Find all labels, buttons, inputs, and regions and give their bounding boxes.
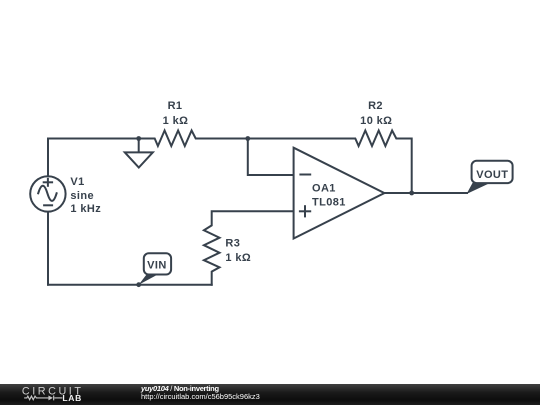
svg-text:VIN: VIN [147, 260, 167, 272]
svg-text:1 kΩ: 1 kΩ [225, 252, 251, 264]
svg-text:VOUT: VOUT [476, 169, 508, 181]
svg-text:R1: R1 [168, 100, 183, 112]
svg-text:OA1: OA1 [312, 182, 336, 194]
svg-text:TL081: TL081 [312, 197, 346, 209]
svg-text:LAB: LAB [62, 393, 81, 403]
svg-text:R3: R3 [225, 238, 240, 250]
svg-text:1 kΩ: 1 kΩ [163, 115, 189, 127]
svg-text:R2: R2 [368, 100, 383, 112]
svg-text:1 kHz: 1 kHz [70, 203, 101, 215]
svg-text:V1: V1 [70, 176, 84, 188]
svg-text:sine: sine [70, 190, 94, 202]
svg-text:10 kΩ: 10 kΩ [360, 115, 392, 127]
